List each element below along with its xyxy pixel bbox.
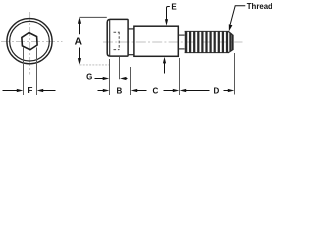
thread end chamfer top [228,31,232,35]
C right arrow [164,89,180,92]
A extension line top [80,16,107,18]
Thread leader arrowhead [229,24,233,31]
neck between head and shoulder [128,28,134,30]
thread bars [189,31,191,52]
hex socket (end view) [22,32,38,50]
B right arrow / C left arrow [131,89,147,92]
head outer circle (end view) [7,19,52,64]
hex socket hidden line end [118,32,120,50]
G right arrow [120,77,128,80]
node end-view centerline vertical [29,12,31,75]
F left arrow [3,89,24,92]
svg-text:C: C [153,87,159,96]
D extension line right [234,53,236,95]
hex socket hidden line bottom [114,49,120,51]
D right arrow [224,89,235,92]
B extension line right [130,67,132,95]
G left arrow [95,77,110,80]
F extension line right [36,48,38,96]
E leader [167,7,170,21]
thread crest bottom [185,52,229,54]
side-view centerline [103,41,243,43]
D left arrow [180,89,210,92]
C extension line right / D left [179,58,181,95]
node end-view centerline horizontal [1,40,63,42]
head left chamfer line [109,20,111,56]
E lower arrow (shoulder dia) [163,57,166,74]
Thread leader [230,6,245,25]
E leader arrowhead [165,19,168,26]
thread crest top [185,30,229,32]
B left arrow [98,89,110,92]
F extension line left [23,48,25,96]
G right extension line (socket depth) [119,57,121,79]
hex socket hidden line top [114,31,120,33]
svg-text:D: D [214,86,220,95]
threaded section [185,31,233,52]
svg-text:F: F [28,86,33,95]
head chamfer inner circle (end view) [10,21,50,61]
dimension A line [78,17,81,64]
thread end chamfer bottom [228,50,232,53]
shoulder (side view) [134,26,178,56]
svg-text:E: E [171,3,177,12]
head (side view) [107,19,128,56]
F right arrow [37,89,56,92]
thread end face [232,35,234,50]
svg-text:Thread: Thread [247,2,272,11]
thread relief neck [178,34,184,36]
svg-text:B: B [117,87,123,96]
svg-text:A: A [75,36,83,47]
B extension line left [109,59,111,95]
thread start face [185,31,188,52]
A extension line bottom [80,64,110,66]
svg-text:G: G [86,72,92,81]
